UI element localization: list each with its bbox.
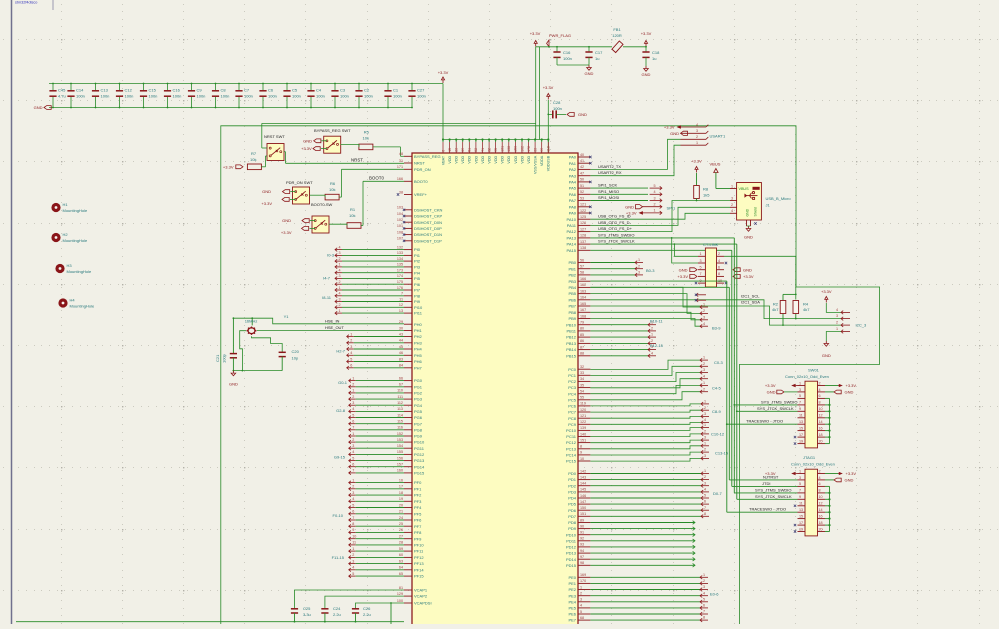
svg-text:PA13: PA13: [567, 236, 577, 241]
svg-text:PI1: PI1: [414, 253, 421, 258]
svg-text:PC6: PC6: [568, 404, 577, 409]
svg-text:160: 160: [397, 469, 403, 473]
svg-text:11: 11: [399, 297, 403, 301]
wire USB ID to PA10: [590, 213, 730, 219]
connector D0-7: [590, 473, 701, 475]
svg-text:100n: 100n: [268, 94, 277, 99]
svg-text:4.7u: 4.7u: [58, 94, 66, 99]
svg-text:3: 3: [580, 598, 582, 602]
svg-text:2.2u: 2.2u: [363, 612, 371, 617]
svg-text:100n: 100n: [364, 94, 373, 99]
svg-text:PB5: PB5: [568, 291, 576, 296]
svg-text:100n: 100n: [292, 94, 301, 99]
svg-text:46: 46: [399, 351, 403, 355]
svg-text:PC13: PC13: [566, 446, 577, 451]
svg-text:5: 5: [704, 494, 706, 498]
wire SPI1_MISO PA6: [590, 193, 648, 195]
capacitor C21 100p: [232, 318, 234, 353]
svg-text:PA10: PA10: [567, 217, 577, 222]
svg-text:4: 4: [352, 450, 354, 454]
MCU left pins control group: [404, 155, 412, 157]
svg-text:1: 1: [651, 333, 653, 337]
svg-text:100n: 100n: [553, 106, 562, 111]
svg-text:PC1: PC1: [568, 373, 577, 378]
svg-text:+3.3V: +3.3V: [846, 471, 857, 476]
svg-text:1: 1: [700, 252, 702, 256]
svg-text:stm32f4disco: stm32f4disco: [15, 1, 37, 5]
svg-text:81: 81: [399, 586, 403, 590]
svg-text:BOOT0-SW: BOOT0-SW: [311, 202, 333, 207]
svg-text:PI4: PI4: [414, 270, 421, 275]
svg-text:SYS_JTMS_SWDIO: SYS_JTMS_SWDIO: [598, 232, 634, 237]
svg-text:PA5: PA5: [569, 186, 577, 191]
wires JTAG1 even pins to bus: [829, 486, 831, 531]
svg-text:Shield: Shield: [754, 207, 758, 217]
svg-text:6: 6: [350, 364, 352, 368]
svg-text:25: 25: [399, 522, 403, 526]
svg-text:51: 51: [580, 184, 584, 188]
svg-text:PD12: PD12: [566, 545, 577, 550]
svg-text:20: 20: [399, 503, 403, 507]
svg-text:C3: C3: [340, 88, 346, 93]
svg-text:169: 169: [580, 573, 586, 577]
svg-text:USB_OTG_FS_D-: USB_OTG_FS_D-: [598, 220, 632, 225]
svg-text:G9-15: G9-15: [334, 455, 346, 460]
svg-text:C8: C8: [221, 88, 227, 93]
capacitor C6: [262, 84, 264, 91]
svg-text:2: 2: [651, 327, 653, 331]
wire crystal gnd rail: [233, 370, 282, 372]
svg-text:PA0: PA0: [569, 155, 577, 160]
svg-text:VDD: VDD: [455, 155, 459, 163]
svg-text:108: 108: [397, 230, 403, 234]
svg-text:PI5: PI5: [414, 276, 421, 281]
capacitor C9: [191, 84, 193, 91]
svg-text:PF11: PF11: [414, 549, 424, 554]
MCU left pins PF group: [404, 482, 412, 484]
svg-text:PE0: PE0: [568, 575, 576, 580]
svg-text:4: 4: [339, 269, 341, 273]
svg-text:57: 57: [580, 265, 584, 269]
svg-text:PH5: PH5: [414, 353, 423, 358]
capacitor C4: [310, 84, 312, 91]
svg-text:101: 101: [397, 224, 403, 228]
svg-text:3: 3: [654, 196, 656, 200]
svg-text:168: 168: [580, 314, 586, 318]
svg-text:7: 7: [352, 426, 354, 430]
svg-text:G2-8: G2-8: [336, 408, 346, 413]
svg-text:1: 1: [352, 376, 354, 380]
svg-text:12: 12: [819, 502, 823, 506]
svg-text:PD5: PD5: [568, 502, 577, 507]
svg-text:3: 3: [352, 559, 354, 563]
svg-text:PE7: PE7: [568, 618, 576, 623]
svg-text:PD8: PD8: [568, 520, 577, 525]
svg-text:VDD: VDD: [468, 155, 472, 163]
global label GND at SW01 pin3: [777, 390, 784, 394]
svg-text:8: 8: [580, 445, 582, 449]
svg-text:GND: GND: [670, 131, 679, 136]
svg-text:165: 165: [580, 302, 586, 306]
svg-text:3: 3: [700, 259, 702, 263]
capacitor C8: [215, 84, 217, 91]
svg-text:R5: R5: [364, 130, 370, 135]
capacitor C7: [238, 84, 240, 91]
svg-text:10: 10: [580, 457, 584, 461]
svg-text:3: 3: [339, 251, 341, 255]
svg-text:DSIHOST_D1N: DSIHOST_D1N: [414, 232, 442, 237]
svg-text:134: 134: [397, 257, 403, 261]
svg-text:162: 162: [520, 146, 524, 152]
svg-text:152: 152: [397, 432, 403, 436]
svg-text:100n: 100n: [340, 94, 349, 99]
svg-text:VDDUSB: VDDUSB: [547, 155, 551, 171]
svg-text:2: 2: [352, 553, 354, 557]
svg-text:+3.3V: +3.3V: [301, 146, 312, 151]
connector CT-LINK: [705, 248, 716, 287]
svg-text:17: 17: [799, 433, 803, 437]
no-connect JTAG1 pins 17 19: [794, 524, 796, 526]
svg-text:121: 121: [580, 203, 586, 207]
wire CT-LINK pin1 from PA14: [674, 244, 698, 256]
svg-text:119: 119: [580, 402, 586, 406]
capacitor C18 1u: [645, 47, 647, 52]
svg-text:VDD: VDD: [481, 155, 485, 163]
svg-text:PC10: PC10: [566, 428, 577, 433]
svg-text:+3.3V: +3.3V: [543, 85, 554, 90]
svg-text:54: 54: [580, 390, 584, 394]
svg-text:PI8: PI8: [414, 293, 421, 298]
svg-text:PH4: PH4: [414, 347, 423, 352]
ground GND below C17: [588, 65, 590, 68]
svg-text:147: 147: [580, 500, 586, 504]
svg-text:3: 3: [703, 585, 705, 589]
svg-text:85: 85: [580, 333, 584, 337]
svg-text:120: 120: [580, 408, 586, 412]
svg-text:166: 166: [580, 277, 586, 281]
svg-text:H2-7: H2-7: [336, 349, 345, 354]
svg-text:1: 1: [703, 303, 705, 307]
wire USART1 pin2 to PA2: [590, 139, 680, 169]
svg-text:BOOT0: BOOT0: [414, 179, 428, 184]
svg-text:1: 1: [352, 478, 354, 482]
svg-text:PB7: PB7: [568, 304, 576, 309]
svg-text:GND: GND: [746, 208, 750, 216]
svg-text:28: 28: [399, 541, 403, 545]
svg-text:B3-9: B3-9: [712, 326, 721, 331]
svg-text:2: 2: [638, 264, 640, 268]
svg-text:45: 45: [399, 345, 403, 349]
wire bundle SWDIO: [733, 238, 735, 493]
wire SPI1_MOSI PA7: [590, 200, 648, 202]
svg-text:GND: GND: [578, 112, 587, 117]
svg-text:33: 33: [533, 148, 537, 152]
svg-text:5: 5: [799, 394, 801, 398]
svg-text:HSE_IN: HSE_IN: [325, 318, 340, 323]
svg-text:PD7: PD7: [568, 514, 577, 519]
wire JTAG1 pin7 SWDIO: [734, 492, 797, 494]
svg-text:C14: C14: [76, 88, 84, 93]
svg-text:6: 6: [704, 500, 706, 504]
global label GND at BYPASS switch: [314, 139, 321, 143]
svg-text:C1: C1: [393, 88, 399, 93]
svg-text:TRACESWO - JTDO: TRACESWO - JTDO: [746, 419, 783, 424]
MCU right pins PD group: [578, 473, 590, 475]
svg-text:58: 58: [580, 271, 584, 275]
svg-text:146: 146: [580, 494, 586, 498]
MCU right pins PC group: [578, 368, 590, 370]
svg-text:PD1: PD1: [568, 477, 577, 482]
MCU right pins PB group: [578, 262, 590, 264]
svg-text:4: 4: [696, 123, 698, 127]
MCU top pins VDD rail: [443, 139, 548, 141]
svg-text:16: 16: [819, 514, 823, 518]
svg-text:174: 174: [397, 274, 403, 278]
wire top rail to switches: [262, 122, 536, 124]
capacitor C26 2.2u: [355, 608, 357, 610]
svg-text:5: 5: [352, 572, 354, 576]
svg-text:104: 104: [397, 212, 403, 216]
MCU right pins PA group: [578, 156, 590, 158]
svg-text:GND: GND: [282, 218, 291, 223]
svg-text:PC7: PC7: [568, 410, 577, 415]
wire VCAP1: [295, 590, 405, 608]
svg-text:R8: R8: [703, 187, 709, 192]
svg-text:143: 143: [580, 475, 586, 479]
capacitor C2: [358, 84, 360, 91]
capacitor C15: [143, 84, 145, 91]
connector C8-9: [590, 404, 701, 406]
svg-text:144: 144: [580, 482, 586, 486]
capacitor C14: [70, 84, 72, 91]
svg-text:4: 4: [819, 476, 821, 480]
capacitor C17 1u: [588, 47, 590, 52]
svg-text:C27: C27: [417, 88, 425, 93]
svg-text:16: 16: [819, 426, 823, 430]
svg-text:H1: H1: [63, 202, 69, 207]
svg-text:PC11: PC11: [566, 434, 576, 439]
svg-text:100n: 100n: [125, 94, 134, 99]
svg-text:DSIHOST_CKP: DSIHOST_CKP: [414, 214, 443, 219]
svg-text:138: 138: [507, 146, 511, 152]
wire CT-LINK pin3 from PA13: [672, 238, 698, 263]
no-connect JTAG1 pin11: [794, 505, 796, 507]
svg-text:PD14: PD14: [566, 557, 577, 562]
svg-text:VDD: VDD: [448, 155, 452, 163]
svg-text:2: 2: [654, 203, 656, 207]
svg-text:PH3: PH3: [414, 340, 423, 345]
connector C10-12: [590, 428, 701, 431]
svg-text:PI10: PI10: [414, 305, 423, 310]
svg-text:PF2: PF2: [414, 493, 422, 498]
svg-text:103: 103: [397, 206, 403, 210]
svg-text:D0-7: D0-7: [713, 491, 722, 496]
svg-text:48: 48: [399, 152, 403, 156]
svg-text:C4-5: C4-5: [712, 386, 721, 391]
connector E0-6: [590, 576, 700, 578]
svg-text:Conn_02x10_Odd_Even: Conn_02x10_Odd_Even: [785, 374, 829, 379]
svg-text:PH2: PH2: [414, 334, 423, 339]
wire CT-LINK pin2 to R4 top: [724, 256, 796, 299]
svg-text:C18: C18: [652, 50, 660, 55]
capacitor C16 100n: [556, 47, 558, 52]
svg-text:PA14: PA14: [567, 242, 577, 247]
svg-text:PF6: PF6: [414, 518, 422, 523]
svg-text:PA7: PA7: [569, 198, 577, 203]
connector SPI1: [660, 186, 662, 190]
svg-text:24: 24: [399, 516, 403, 520]
svg-text:14: 14: [819, 508, 823, 512]
USB shield pins to GND: [746, 220, 748, 226]
svg-text:95: 95: [494, 148, 498, 152]
svg-text:125: 125: [580, 215, 586, 219]
svg-text:3: 3: [799, 476, 801, 480]
global label +3.3V at BYPASS switch: [313, 147, 320, 151]
global label +3.3V at BOOT0 switch: [302, 227, 309, 231]
svg-text:173: 173: [397, 269, 403, 273]
svg-text:PG7: PG7: [414, 421, 423, 426]
svg-text:100n: 100n: [316, 94, 325, 99]
power +3.3V at USART1 pin4: [677, 125, 681, 129]
svg-text:2.2u: 2.2u: [333, 612, 341, 617]
svg-text:115: 115: [397, 420, 403, 424]
svg-text:PI0: PI0: [414, 247, 421, 252]
svg-text:3: 3: [352, 401, 354, 405]
svg-text:6: 6: [352, 420, 354, 424]
capacitor C12: [119, 84, 121, 91]
global label GND at CT-LINK pin6: [733, 268, 740, 272]
capacitor C5: [286, 84, 288, 91]
svg-text:2: 2: [350, 339, 352, 343]
svg-text:79: 79: [580, 321, 584, 325]
svg-text:PC14: PC14: [566, 453, 577, 458]
connector SW01 Conn_02x10_Odd_Even: [805, 381, 818, 448]
capacitor C27: [411, 84, 413, 91]
connector G9-15: [349, 434, 351, 438]
svg-text:1: 1: [836, 327, 838, 331]
svg-text:2: 2: [580, 592, 582, 596]
svg-text:PG3: PG3: [414, 397, 423, 402]
svg-text:93: 93: [580, 543, 584, 547]
connector H2-7: [347, 335, 349, 339]
svg-text:PD4: PD4: [568, 496, 577, 501]
svg-text:100n: 100n: [173, 94, 182, 99]
svg-text:C12: C12: [125, 88, 133, 93]
svg-text:GND: GND: [642, 72, 651, 77]
svg-text:3: 3: [704, 481, 706, 485]
svg-text:USB_OTG_FS_ID: USB_OTG_FS_ID: [598, 214, 631, 219]
svg-text:+3.3V: +3.3V: [677, 274, 688, 279]
svg-text:PG12: PG12: [414, 452, 425, 457]
svg-text:E0-6: E0-6: [710, 592, 719, 597]
svg-text:PG13: PG13: [414, 458, 425, 463]
svg-text:1k5: 1k5: [703, 193, 710, 198]
svg-text:PA1: PA1: [569, 161, 577, 166]
svg-text:14: 14: [819, 420, 823, 424]
svg-text:150: 150: [514, 146, 518, 152]
svg-text:39: 39: [461, 148, 465, 152]
svg-text:PG6: PG6: [414, 415, 423, 420]
svg-text:PB1: PB1: [568, 266, 576, 271]
svg-text:166: 166: [397, 177, 403, 181]
svg-text:4: 4: [836, 308, 838, 312]
svg-text:2: 2: [703, 309, 705, 313]
svg-text:PD13: PD13: [566, 551, 577, 556]
svg-text:163: 163: [580, 289, 586, 293]
svg-text:SPI1_MISO: SPI1_MISO: [598, 189, 619, 194]
svg-text:56: 56: [580, 258, 584, 262]
connector G0-1: [349, 379, 351, 383]
svg-text:138: 138: [580, 246, 586, 250]
resistor R5 10k: [359, 144, 373, 150]
svg-text:151: 151: [580, 438, 586, 442]
svg-text:30: 30: [399, 326, 403, 330]
global label GND at BOOT0 switch: [302, 219, 309, 223]
svg-text:PH0: PH0: [414, 322, 423, 327]
svg-text:100n: 100n: [101, 94, 110, 99]
svg-text:100n: 100n: [221, 94, 230, 99]
svg-text:SPI1: SPI1: [667, 205, 676, 210]
svg-text:83: 83: [399, 357, 403, 361]
svg-text:5: 5: [799, 482, 801, 486]
svg-text:+3.3V: +3.3V: [846, 383, 857, 388]
sheet border line: [11, 0, 13, 624]
wire JTAG1 pin5 JTDI: [732, 485, 798, 487]
connector C0-3: [590, 360, 700, 369]
svg-text:JTAG1: JTAG1: [803, 455, 816, 460]
svg-text:9: 9: [580, 451, 582, 455]
svg-text:2: 2: [704, 406, 706, 410]
svg-text:3.3u: 3.3u: [303, 612, 311, 617]
svg-text:VDD: VDD: [501, 155, 505, 163]
global label GND (cap bank): [44, 106, 51, 110]
svg-text:PB4: PB4: [568, 285, 576, 290]
svg-text:PB10: PB10: [566, 322, 577, 327]
svg-text:7: 7: [703, 610, 705, 614]
svg-text:40: 40: [580, 153, 584, 157]
svg-text:20: 20: [819, 439, 823, 443]
wires BOOT0 to MCU: [329, 223, 347, 225]
svg-text:100n: 100n: [76, 94, 85, 99]
svg-text:167: 167: [580, 308, 586, 312]
svg-text:3: 3: [339, 274, 341, 278]
svg-text:I2C_3: I2C_3: [856, 323, 867, 328]
svg-text:2: 2: [696, 135, 698, 139]
svg-text:6: 6: [352, 463, 354, 467]
svg-text:4: 4: [819, 388, 821, 392]
connector I4-7: [335, 271, 337, 275]
svg-text:PH7: PH7: [414, 365, 423, 370]
svg-text:92: 92: [580, 537, 584, 541]
svg-text:B0-3: B0-3: [646, 268, 655, 273]
svg-text:HSE_OUT: HSE_OUT: [325, 325, 344, 330]
svg-text:PA11: PA11: [567, 223, 577, 228]
svg-text:C15: C15: [149, 88, 157, 93]
svg-text:38: 38: [399, 190, 403, 194]
power +3.3V right of FB1: [644, 41, 647, 44]
svg-text:2: 2: [339, 303, 341, 307]
svg-text:PE5: PE5: [568, 606, 576, 611]
svg-text:PA4: PA4: [569, 180, 577, 185]
svg-text:C28: C28: [553, 100, 561, 105]
svg-text:PB8: PB8: [568, 310, 576, 315]
svg-text:C16: C16: [563, 50, 571, 55]
svg-text:VCAPDSI: VCAPDSI: [414, 601, 432, 606]
svg-text:GND: GND: [845, 478, 854, 483]
svg-text:18: 18: [819, 521, 823, 525]
svg-text:2: 2: [352, 395, 354, 399]
mounting hole H3: [55, 264, 64, 273]
